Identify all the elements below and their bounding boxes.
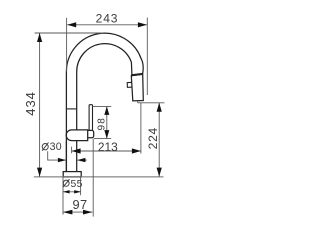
dim 98 bottom tick [94,138,111,140]
dim 98 top tick [93,105,112,107]
dim 97 line [63,211,92,213]
dim ø30 arrow left [58,158,66,162]
dim 224 arrow down [157,168,162,177]
svg-text:30: 30 [50,141,62,153]
dim 243 line [67,24,147,26]
dim 243 extension right [146,18,148,96]
column lower segment right [76,141,78,172]
dim ø30 leader [48,151,66,160]
dim 97 arrow right [83,210,92,215]
dim 213 axis tick [71,147,73,154]
dim 243 arrow right [138,22,147,27]
svg-text:243: 243 [96,12,119,26]
valve body capsule [66,130,88,141]
svg-text:55: 55 [71,179,83,190]
spray head joint collar [131,74,143,75]
faucet spout inner arc [77,44,132,131]
svg-text:98: 98 [97,117,108,131]
outlet stub [137,101,139,103]
dim ø30 text [42,141,62,153]
base plate [63,172,81,177]
svg-text:224: 224 [146,127,160,149]
dim ø55 line [63,191,81,193]
dim 213 line [72,150,141,152]
column lower segment left [65,141,67,172]
dim 98 line [106,106,108,138]
dim ø55 extension left [62,177,64,214]
dim 434 arrow up [37,33,42,42]
handle lever [89,105,92,131]
dim ø30 right line [77,159,87,161]
dim 213 arrow right [132,148,141,153]
svg-text:434: 434 [23,91,38,115]
faucet spout outer arc [66,33,143,171]
svg-text:97: 97 [72,197,87,212]
dim ø55 arrow right [74,190,81,193]
dim 98 arrow down [104,130,109,139]
dim 213 arrow left [72,148,81,153]
dim 97 extension right [92,139,94,217]
dim 224 line [158,103,160,177]
dim 243 arrow left [67,22,76,27]
dim ø55 extension right [80,177,82,195]
column joint line [66,108,76,110]
spray head body [131,74,143,101]
dim ø55 arrow left [63,190,70,193]
dim 97 arrow left [63,210,72,215]
spray head button [127,82,131,87]
dim 98 arrow up [104,106,109,115]
dim 213 extension right [140,103,142,154]
svg-text:213: 213 [98,140,118,154]
dim 434 line [39,33,41,177]
handle base cap [88,130,94,137]
dim 224 top tick [138,102,165,104]
dim 243 extension left [66,18,68,72]
dim 434 arrow down [37,168,42,177]
dim 434 top tick [35,32,103,34]
dim ø30 arrow right [77,158,85,162]
dim ø55 text [63,179,82,190]
dim 224 arrow up [157,103,162,112]
counter reference line [34,176,164,178]
